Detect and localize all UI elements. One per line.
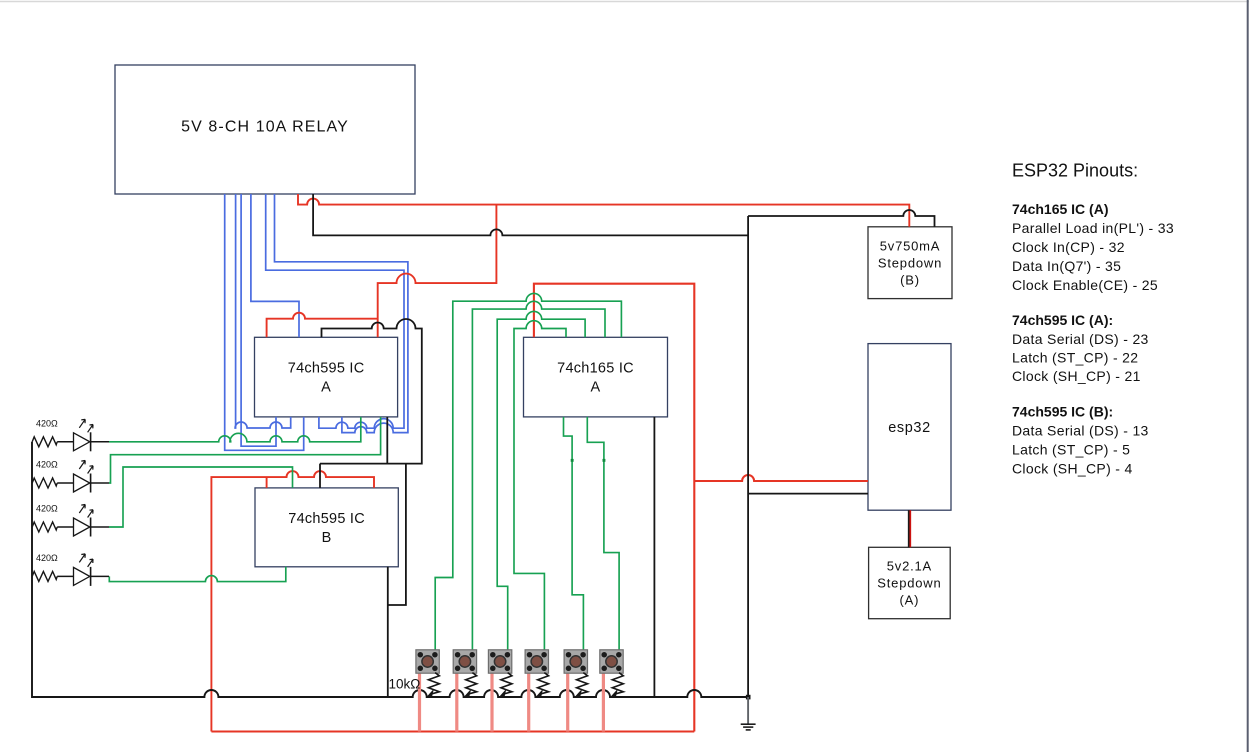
- wire blue relay out3: [241, 194, 276, 446]
- svg-text:5V 8-CH 10A RELAY: 5V 8-CH 10A RELAY: [181, 119, 349, 136]
- pin Data Serial (DS) 13: [1012, 423, 1149, 439]
- wire black 595B top pin stub: [319, 464, 321, 488]
- resistor R9 10k&#937; pulldown: [575, 673, 588, 697]
- wire green 165A D5 to button6: [587, 417, 619, 650]
- svg-text:74ch595 IC: 74ch595 IC: [288, 511, 365, 527]
- wire black 595B gnd drop: [388, 464, 406, 605]
- svg-text:esp32: esp32: [888, 420, 931, 436]
- window right edge line: [1247, 0, 1249, 752]
- svg-text:420Ω: 420Ω: [36, 504, 58, 514]
- svg-text:420Ω: 420Ω: [36, 460, 58, 470]
- wire green LED1 to 595A: [109, 417, 361, 442]
- pin Clock (SH_CP) 21: [1012, 368, 1141, 384]
- power module PS2 5v750mA Stepdown (B): [868, 227, 952, 299]
- resistor R4 420&#937; with LED D4: [32, 554, 109, 586]
- pushbutton SW4: [525, 650, 548, 673]
- svg-text:A: A: [321, 380, 331, 396]
- svg-text:B: B: [322, 530, 332, 546]
- svg-text:74ch165 IC (A): 74ch165 IC (A): [1012, 201, 1108, 217]
- wire black stepdownB gnd: [748, 210, 934, 227]
- wire blue relay out5: [266, 194, 404, 428]
- resistor R5 10k&#937; pulldown: [427, 673, 440, 697]
- svg-text:420Ω: 420Ω: [36, 418, 58, 428]
- pushbutton SW3: [488, 650, 511, 673]
- svg-text:420Ω: 420Ω: [36, 553, 58, 563]
- wire black relay gnd: [313, 194, 748, 235]
- wire black 595A gnd loop: [320, 319, 422, 464]
- resistor R2 420&#937; with LED D2: [32, 461, 109, 493]
- wire green 165A D4 to button5: [564, 417, 584, 650]
- shift register U2 74ch165 IC A: [524, 337, 668, 417]
- svg-text:Clock (SH_CP) - 21: Clock (SH_CP) - 21: [1012, 368, 1141, 384]
- wire red relay 5V rail: [298, 194, 909, 227]
- svg-text:Data Serial (DS) - 23: Data Serial (DS) - 23: [1012, 331, 1149, 347]
- svg-text:ESP32 Pinouts:: ESP32 Pinouts:: [1012, 160, 1138, 180]
- wire darkred esp32 to stepdownA: [909, 510, 911, 547]
- window top edge line: [0, 1, 1249, 3]
- resistor R7 10k&#937; pulldown: [499, 673, 512, 697]
- svg-text:74ch595 IC (B):: 74ch595 IC (B):: [1012, 404, 1113, 420]
- svg-text:Stepdown: Stepdown: [877, 576, 941, 591]
- pushbutton SW2: [453, 650, 476, 673]
- wire black esp32 to stepdownA: [908, 510, 910, 547]
- pin Latch (ST_CP) 22: [1012, 350, 1138, 366]
- svg-text:(B): (B): [900, 272, 920, 287]
- wire red 595A MR branch: [267, 313, 378, 338]
- wire black esp32 gnd: [748, 493, 868, 495]
- svg-text:74ch165 IC: 74ch165 IC: [557, 361, 634, 377]
- svg-text:Stepdown: Stepdown: [878, 255, 942, 270]
- wire black 165A gnd: [653, 417, 655, 697]
- wire green LED4 to 595B: [109, 567, 285, 582]
- svg-text:Clock In(CP) - 32: Clock In(CP) - 32: [1012, 239, 1125, 255]
- label 10k&#937;: [389, 677, 421, 692]
- ground symbol: [741, 695, 756, 730]
- heading 74ch595 IC (B): [1012, 404, 1113, 420]
- wire black main gnd vertical: [747, 216, 749, 697]
- resistor R6 10k&#937; pulldown: [464, 673, 477, 697]
- pin Clock Enable(CE) 25: [1012, 277, 1158, 293]
- pin Clock (SH_CP) 4: [1012, 461, 1133, 477]
- resistor R10 10k&#937; pulldown: [611, 673, 624, 697]
- label R2 value 420&#937;: [36, 460, 58, 470]
- shift register U1 74ch595 IC A: [255, 337, 398, 417]
- wire red esp32 5V in: [694, 475, 868, 481]
- wire green 165A D0 to button1: [435, 293, 621, 649]
- pin Latch (ST_CP) 5: [1012, 442, 1130, 458]
- wire red rail drop to 595A: [378, 205, 497, 338]
- wire blue relay out2: [235, 194, 291, 428]
- svg-text:(A): (A): [900, 593, 920, 608]
- wire salmon button SW4 to 5V bus: [527, 666, 530, 732]
- svg-text:Parallel Load in(PL') - 33: Parallel Load in(PL') - 33: [1012, 220, 1174, 236]
- wire salmon button SW6 to 5V bus: [602, 666, 605, 732]
- svg-text:74ch595 IC (A):: 74ch595 IC (A):: [1012, 312, 1113, 328]
- svg-text:5v2.1A: 5v2.1A: [887, 559, 932, 574]
- wire red 165A feed: [534, 284, 694, 732]
- wire green 165A D1 to button2: [472, 301, 605, 650]
- wire red bottom 5V bus: [211, 731, 694, 733]
- svg-text:A: A: [591, 380, 601, 396]
- pushbutton SW5: [564, 650, 587, 673]
- wire black 595B bottom pin to gnd bus: [387, 567, 389, 697]
- heading 74ch165 IC (A): [1012, 201, 1108, 217]
- svg-text:10kΩ: 10kΩ: [389, 677, 421, 692]
- wire salmon button SW3 to 5V bus: [490, 666, 493, 732]
- heading 74ch595 IC (A): [1012, 312, 1113, 328]
- pin Data Serial (DS) 23: [1012, 331, 1149, 347]
- svg-text:Latch (ST_CP) - 22: Latch (ST_CP) - 22: [1012, 350, 1138, 366]
- svg-text:74ch595 IC: 74ch595 IC: [288, 361, 365, 377]
- svg-text:Clock (SH_CP) - 4: Clock (SH_CP) - 4: [1012, 461, 1133, 477]
- svg-text:Latch (ST_CP) - 5: Latch (ST_CP) - 5: [1012, 442, 1130, 458]
- wire red 595B feed riser: [211, 471, 374, 731]
- svg-text:5v750mA: 5v750mA: [880, 238, 941, 253]
- wire green LED3 to 595B: [109, 467, 293, 527]
- svg-text:Clock Enable(CE) - 25: Clock Enable(CE) - 25: [1012, 277, 1158, 293]
- wire blue relay out4: [251, 194, 299, 337]
- wire blue relay out6: [275, 194, 408, 433]
- svg-text:Data In(Q7') - 35: Data In(Q7') - 35: [1012, 258, 1121, 274]
- title ESP32 Pinouts: [1012, 160, 1138, 180]
- wire green LED2 to 595A: [109, 417, 381, 483]
- wire black ground bus: [32, 442, 748, 697]
- wire salmon button SW5 to 5V bus: [566, 666, 569, 732]
- svg-text:Data Serial (DS) - 13: Data Serial (DS) - 13: [1012, 423, 1149, 439]
- resistor R3 420&#937; with LED D3: [32, 505, 109, 537]
- pin Data In(Q7) 35: [1012, 258, 1121, 274]
- wire blue relay out1: [225, 194, 304, 450]
- shift register U3 74ch595 IC B: [255, 488, 398, 567]
- label R1 value 420&#937;: [36, 418, 58, 428]
- pushbutton SW6: [600, 650, 623, 673]
- resistor R1 420&#937; with LED D1: [32, 419, 109, 451]
- label R3 value 420&#937;: [36, 504, 58, 514]
- wire salmon button SW1 to 5V bus: [418, 666, 421, 732]
- wire salmon button SW2 to 5V bus: [455, 666, 458, 732]
- pin Clock In(CP) 32: [1012, 239, 1125, 255]
- wire green 165A D2 to button3: [497, 311, 585, 649]
- resistor R8 10k&#937; pulldown: [536, 673, 549, 697]
- wire green 165A D3 to button4: [514, 321, 566, 650]
- wire black 595A bottom pin stub: [386, 417, 388, 464]
- label R4 value 420&#937;: [36, 553, 58, 563]
- pin Parallel Load in(PL) 33: [1012, 220, 1174, 236]
- microcontroller U4 esp32: [868, 344, 951, 511]
- relay module K1: [115, 65, 415, 194]
- wire red 595B left pin stub: [266, 477, 268, 488]
- pushbutton SW1: [416, 650, 439, 673]
- power module PS1 5v2.1A Stepdown (A): [869, 547, 951, 618]
